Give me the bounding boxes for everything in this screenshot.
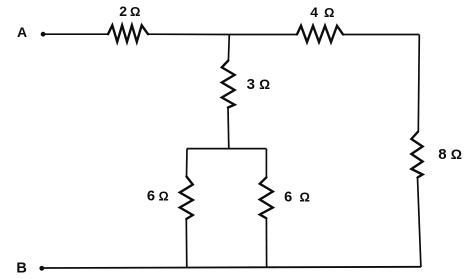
svg-text:Ω: Ω	[451, 146, 462, 162]
svg-text:3: 3	[247, 76, 255, 93]
resistor 4ohm	[297, 26, 343, 42]
resistor 6ohm left	[180, 177, 193, 220]
svg-text:Ω: Ω	[324, 5, 334, 20]
resistor 2ohm	[108, 25, 148, 42]
svg-text:Ω: Ω	[130, 4, 140, 19]
wire top junction to resistor 4ohm	[229, 34, 297, 36]
wire right branch top	[265, 149, 267, 178]
wire middle bar	[187, 148, 267, 150]
svg-text:4: 4	[310, 4, 318, 20]
svg-text:Ω: Ω	[300, 189, 310, 204]
resistor 8ohm	[411, 132, 422, 178]
wire resistor 3ohm to middle bar	[227, 108, 230, 149]
wire right branch bottom	[265, 218, 267, 267]
svg-text:2: 2	[119, 3, 127, 19]
wire right rail bottom	[418, 178, 421, 268]
wire left branch top	[186, 149, 189, 177]
svg-text:6: 6	[284, 189, 292, 205]
svg-text:Ω: Ω	[159, 190, 169, 204]
wire top junction down to resistor 3ohm	[227, 35, 230, 61]
resistor 6ohm right	[260, 177, 273, 218]
wire left branch bottom	[185, 219, 188, 268]
svg-text:8: 8	[438, 146, 446, 163]
svg-text:A: A	[17, 24, 27, 40]
svg-text:B: B	[16, 261, 26, 277]
svg-text:6: 6	[147, 189, 155, 205]
terminal B dot	[39, 266, 44, 271]
wire resistor 2ohm to top junction	[148, 33, 229, 35]
wire right rail top	[418, 35, 419, 132]
terminal A dot	[41, 32, 46, 37]
resistor 3ohm	[222, 61, 235, 108]
wire resistor 4ohm to top right corner	[343, 34, 419, 36]
wire bottom rail	[44, 267, 421, 268]
wire A to resistor 2ohm	[45, 33, 108, 35]
svg-text:Ω: Ω	[259, 77, 270, 92]
